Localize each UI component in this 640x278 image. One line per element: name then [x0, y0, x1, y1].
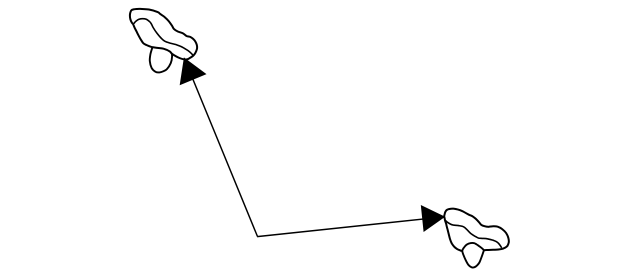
upper-left part: inner contour line [134, 19, 193, 56]
lower-right part: inner contour line [445, 220, 502, 248]
lower-right part: outer body outline [444, 209, 509, 252]
arrow line to lower-right part [257, 217, 444, 237]
upper-left part: mounting tab lobe [150, 47, 172, 72]
arrow line to upper-left part [184, 58, 257, 236]
upper-left part: outer body outline [130, 9, 197, 60]
arrowhead pointing at upper-left part [180, 58, 205, 84]
arrowhead pointing at lower-right part [421, 206, 444, 231]
lower-right part: bottom tab lobe [462, 243, 483, 268]
